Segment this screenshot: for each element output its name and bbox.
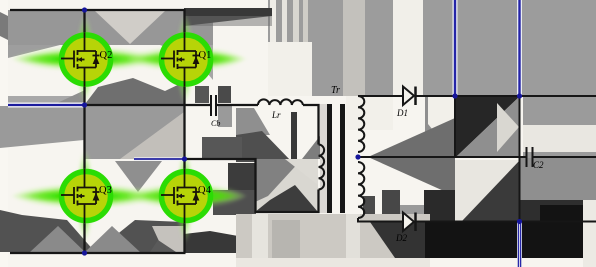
transformer Tr core	[327, 104, 345, 213]
transistor Q2	[61, 33, 112, 87]
wire capacitor Cb to inductor Lr	[217, 104, 258, 106]
wire bottom output rail	[415, 221, 596, 223]
node top rail left riser	[452, 93, 457, 98]
wire left bridge leg	[83, 10, 85, 253]
wire right bridge leg	[183, 9, 185, 253]
svg-text:Tr: Tr	[331, 85, 340, 96]
svg-text:Q1: Q1	[199, 50, 212, 61]
wire centre tap line right	[533, 156, 596, 158]
wire node A to capacitor Cb	[85, 104, 211, 106]
inductor Lr	[258, 99, 303, 120]
wire blue stub at node B	[134, 157, 185, 161]
svg-text:C2: C2	[533, 160, 544, 170]
wire transformer primary return loop	[185, 159, 319, 212]
capacitor Cb	[211, 95, 220, 128]
wire top output rail	[415, 95, 596, 97]
node transformer centre tap	[355, 154, 360, 159]
wire secondary bottom to diode D2	[358, 218, 403, 222]
wire blue riser right	[517, 0, 522, 96]
wire bottom rail	[10, 252, 186, 254]
svg-text:D2: D2	[395, 233, 407, 243]
node bottom of left leg	[82, 250, 87, 255]
wire from top rail down to bottom rail	[519, 96, 521, 222]
node top rail right riser	[517, 93, 522, 98]
node A	[82, 102, 87, 107]
wire secondary top to diode D1	[358, 95, 403, 97]
svg-text:Q2: Q2	[100, 50, 113, 61]
node bottom rail drop	[517, 219, 522, 224]
capacitor C2	[527, 147, 545, 170]
diode D2	[395, 213, 416, 244]
diode D1	[396, 87, 416, 119]
transformer Tr primary winding	[319, 145, 325, 190]
svg-text:Lr: Lr	[271, 110, 281, 120]
wire blue drop bottom right	[517, 222, 522, 267]
svg-text:D1: D1	[396, 108, 408, 118]
wire blue input to node A	[8, 103, 85, 108]
svg-text:Cb: Cb	[211, 119, 220, 128]
node top of left leg	[82, 7, 87, 12]
transformer Tr secondary winding upper	[358, 96, 364, 152]
svg-text:Q3: Q3	[99, 185, 112, 196]
node B	[182, 156, 187, 161]
wire top rail	[10, 9, 186, 11]
wire centre tap line	[358, 156, 527, 158]
transformer Tr secondary winding lower	[358, 162, 364, 218]
transistor Q4	[161, 169, 212, 223]
svg-text:Q4: Q4	[198, 185, 212, 196]
wire inductor Lr to transformer primary	[303, 105, 319, 145]
wire from top rail down to centre-tap line	[454, 96, 456, 157]
transistor Q3	[61, 169, 112, 223]
transistor Q1	[161, 33, 211, 87]
wire blue riser left	[453, 0, 458, 96]
